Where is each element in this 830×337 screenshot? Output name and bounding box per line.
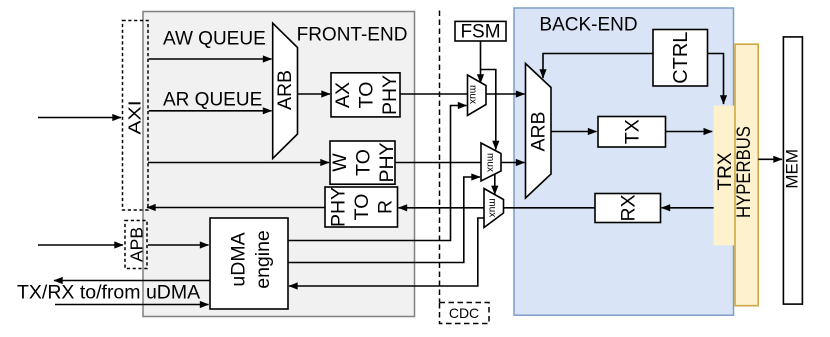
svg-text:CDC: CDC [449, 305, 479, 321]
svg-text:RX: RX [618, 194, 640, 221]
svg-text:MEM: MEM [782, 149, 801, 189]
svg-text:AXI: AXI [125, 100, 145, 134]
svg-text:mux: mux [467, 85, 478, 104]
svg-text:mux: mux [485, 153, 496, 172]
svg-text:AW QUEUE: AW QUEUE [163, 28, 266, 49]
svg-text:HYPERBUS: HYPERBUS [733, 126, 754, 218]
svg-text:TX: TX [622, 119, 644, 144]
svg-text:ARB: ARB [528, 111, 550, 151]
svg-text:FSM: FSM [460, 21, 500, 42]
svg-text:AR QUEUE: AR QUEUE [163, 90, 262, 111]
svg-text:ARB: ARB [274, 70, 296, 110]
svg-text:FRONT-END: FRONT-END [297, 25, 408, 46]
svg-text:mux: mux [487, 198, 498, 217]
svg-text:CTRL: CTRL [670, 32, 692, 84]
svg-text:BACK-END: BACK-END [539, 15, 637, 36]
svg-text:TX/RX to/from uDMA: TX/RX to/from uDMA [17, 282, 200, 304]
svg-text:APB: APB [127, 227, 147, 262]
